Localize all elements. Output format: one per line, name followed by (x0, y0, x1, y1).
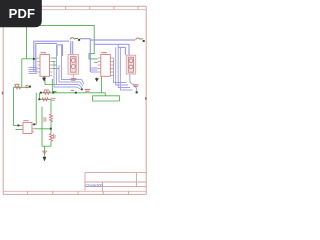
bus left block top (34, 41, 69, 72)
IC2 bottom arrow marker (96, 78, 99, 82)
resistor R2 label (44, 89, 49, 91)
title block divider col 1 (102, 182, 104, 191)
wire net IC1 bottom drop (45, 76, 57, 84)
connector J2 label (133, 85, 138, 87)
wire net resistor chain vertical mid (50, 122, 52, 134)
wire net IC3 right to R chain (34, 128, 51, 130)
op-amp IC1 body (40, 55, 50, 77)
connector J1 hole 2 (71, 65, 75, 69)
connector J2 inner (128, 57, 133, 72)
connector J1 inner (71, 57, 76, 73)
wire net IC2 left pin stub (94, 61, 97, 63)
bus right block top (90, 39, 135, 72)
bus staircase left block (54, 62, 77, 88)
bus connector1 feed b (72, 41, 74, 54)
bus staircase right block (114, 58, 127, 83)
IC2 name label (101, 52, 107, 54)
wire net vertical to IC3 right (35, 93, 37, 125)
wire net to IC1 pin row (22, 58, 38, 60)
frame row letter mark left (2, 92, 4, 95)
svg-text:Chask30b: Chask30b (86, 183, 103, 187)
IC2 pins left (97, 58, 100, 72)
supply arc right net stub (140, 38, 143, 40)
resistor R3 body (15, 86, 21, 89)
svg-text:PDF: PDF (9, 6, 36, 21)
connector J1 hole 1 (71, 58, 75, 62)
IC3 pins left (21, 126, 24, 130)
wire net top left drop (26, 25, 28, 58)
page background (0, 0, 149, 198)
junction dot net mid left (40, 92, 42, 94)
pin circle marker (26, 85, 28, 87)
title block left edge (84, 173, 86, 192)
frame column ticks top (42, 6, 138, 10)
frame inner border (3, 10, 146, 192)
title block divider col 2 (135, 173, 137, 187)
junction dot long line mid (75, 92, 77, 94)
title block top line (85, 172, 146, 174)
transistor IC3 body (23, 123, 32, 134)
bus connector2 bottom S wire (130, 74, 137, 92)
IC3 pins right (32, 125, 34, 132)
title block row line 3 (85, 186, 146, 188)
wire net top right drop (89, 25, 97, 59)
connector J2 hole 1 (129, 59, 133, 63)
resistor R4 label (44, 117, 46, 122)
wire net green box loop (93, 96, 120, 101)
resistor R5 label (53, 134, 55, 139)
op-amp IC2 body (101, 55, 111, 77)
bus connector2 feed (128, 44, 130, 55)
junction dot row2 left (38, 98, 40, 100)
junction dot R chain mid (50, 128, 52, 130)
supply arc left (70, 38, 74, 40)
wire net resistor R2 feed (39, 93, 41, 100)
connector J1 pin stub below (72, 74, 74, 78)
junction mark right of circle (29, 86, 31, 88)
IC2 pins right (110, 58, 113, 75)
wire net IC2 bottom drop (100, 76, 102, 93)
wire net resistor row 2 (40, 98, 52, 100)
IC1 pins right (50, 58, 53, 75)
wire net resistor R3 row (14, 86, 31, 88)
junction dot IC3 left (17, 125, 19, 127)
wire net IC3 pin left 2 (16, 129, 24, 131)
bus right nested corner (118, 47, 125, 55)
connector J1 outer (68, 55, 79, 75)
resistor R2 body (43, 91, 50, 94)
junction dot staircase end (81, 88, 83, 90)
resistor R4h label (51, 98, 56, 100)
resistor R3 label (14, 83, 19, 85)
wire net mid drop to box (104, 93, 106, 96)
ground arrow (43, 157, 46, 161)
frame outer border (3, 6, 146, 194)
PDF badge (0, 0, 42, 27)
junction right supply (143, 40, 145, 42)
IC1 pins left (37, 58, 40, 72)
bus IC2 left entries (90, 68, 97, 72)
resistor R4h body row2 (42, 98, 49, 101)
wire net resistor chain vertical top (50, 99, 52, 114)
wire net top horizontal (27, 24, 95, 26)
wire net left vertical A (21, 59, 23, 88)
bus connector1 feed a (70, 41, 72, 54)
wire net left chain vertical (41, 107, 43, 147)
supply arc right (136, 38, 140, 40)
junction X below connector2 (136, 91, 138, 93)
junction dot IC3 right (33, 123, 35, 125)
ground symbol bottom (42, 151, 47, 153)
IC3 name label (23, 120, 28, 122)
frame column ticks bottom (28, 191, 129, 194)
resistor R4 vertical body (50, 114, 53, 122)
junction dot resistor R2 right (52, 92, 54, 94)
connector J2 hole 2 (129, 65, 133, 69)
bus bracket left block (57, 45, 63, 56)
junction label red mid (71, 89, 74, 91)
title block row line 2 (85, 181, 146, 183)
connector J2 outer (126, 55, 136, 74)
wire net left vertical B (13, 87, 15, 125)
junction left supply (78, 39, 80, 41)
wire net long horizontal mid (41, 92, 105, 94)
wire net IC1 right pin stubs (52, 57, 56, 59)
connector J1 label below (71, 79, 77, 81)
bus IC1 left entries (29, 67, 38, 73)
wire net connector1 drop (52, 79, 56, 93)
junction label red staircase (85, 89, 91, 91)
wire net IC3 pin left 1 (14, 125, 24, 127)
supply arc left net stub (75, 38, 78, 40)
IC1 name label (41, 52, 47, 54)
wire net gnd drop (44, 146, 46, 156)
junction dot IC1 net (33, 58, 35, 60)
wire net resistor chain vertical bottom (50, 141, 52, 146)
wire net chain bottom loop (42, 145, 51, 147)
bus right block second (94, 43, 130, 45)
resistor R5 vertical body (50, 134, 53, 142)
frame row letter mark right (145, 97, 147, 100)
wire net IC3 right pin 1 (34, 124, 36, 126)
bus net to right block (80, 38, 91, 40)
bus staircase left merge diagonals (77, 80, 84, 90)
IC1 bottom arrow marker (43, 77, 46, 81)
bus left block second (36, 43, 57, 72)
